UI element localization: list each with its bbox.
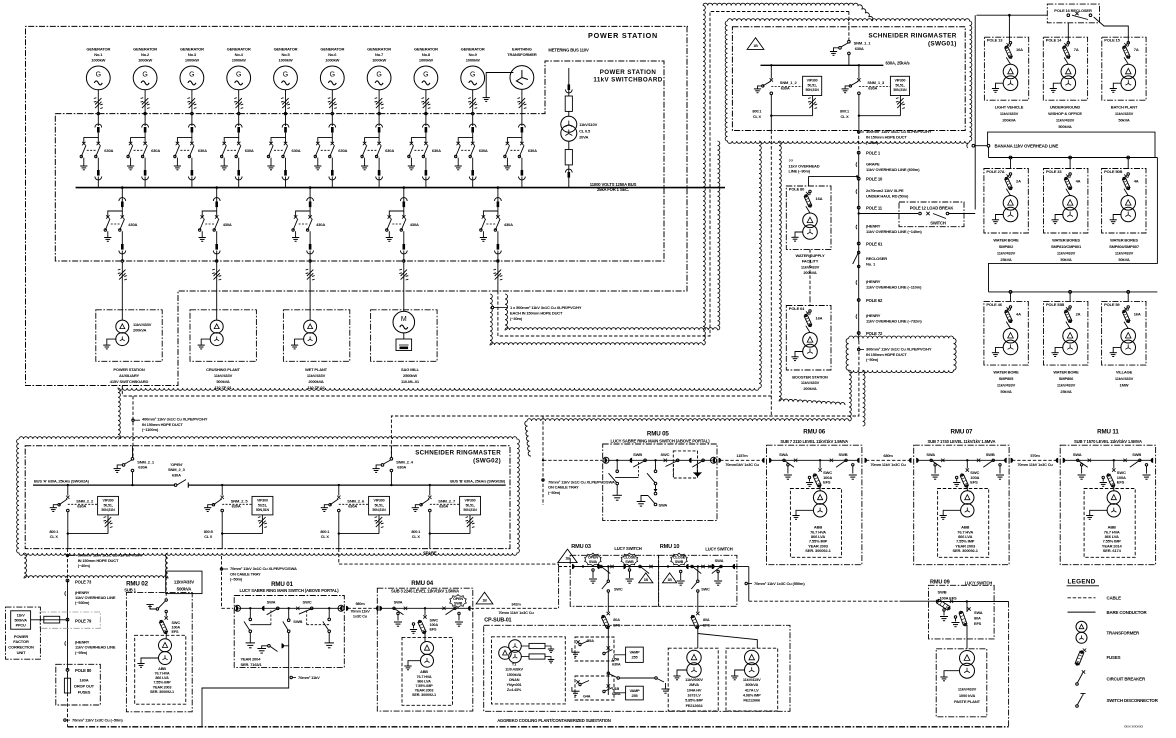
svg-text:70mm² 11kV: 70mm² 11kV [298, 675, 320, 680]
svg-text:SWB: SWB [675, 560, 684, 564]
svg-text:GENERATOR: GENERATOR [180, 47, 204, 52]
svg-text:YEAR 2003: YEAR 2003 [415, 689, 434, 693]
svg-text:630A: 630A [198, 148, 207, 153]
svg-text:No.6: No.6 [328, 52, 337, 57]
svg-text:800:1: 800:1 [49, 530, 58, 534]
cable label 400mm 1100m [132, 417, 208, 433]
wire drop to pole 14 [1067, 23, 1069, 43]
svg-text:2x70mm2 11kV XLPE: 2x70mm2 11kV XLPE [866, 188, 904, 193]
svg-text:630A: 630A [385, 148, 394, 153]
svg-text:GENERATOR: GENERATOR [274, 47, 298, 52]
RMU 11 substation [1060, 428, 1155, 564]
svg-text:SWA: SWA [779, 452, 788, 457]
svg-text:(~1100m): (~1100m) [142, 427, 159, 432]
svg-text:POLE 14: POLE 14 [1046, 38, 1062, 43]
svg-text:50,51,: 50,51, [258, 503, 267, 507]
svg-text:WATER BORES: WATER BORES [1110, 237, 1138, 242]
cloud pocket around 40m label [24, 553, 168, 578]
POLE 12 LOAD BREAK SWITCH box [858, 202, 976, 227]
svg-text:SNM_2_7: SNM_2_7 [438, 498, 456, 503]
cable RMU05 to RMU06 [719, 453, 765, 467]
RMU 01 box [234, 596, 344, 668]
wet plant transformer box [283, 291, 349, 390]
svg-text:FE212666: FE212666 [743, 698, 761, 703]
svg-text:RMU 09: RMU 09 [930, 580, 950, 586]
svg-text:SER. 300092-1: SER. 300092-1 [952, 548, 978, 553]
svg-text:No.7: No.7 [375, 52, 384, 57]
svg-text:630A: 630A [338, 148, 347, 153]
svg-text:BUS 'A' 630A, 25kA/s (SWG02A): BUS 'A' 630A, 25kA/s (SWG02A) [34, 478, 90, 483]
cloud around SWG02 [17, 437, 520, 556]
node POLE 80 drop out fuses [56, 664, 101, 705]
crushing plant transformer box [190, 291, 256, 390]
transformer 11kV/690V 2MVA [668, 648, 718, 711]
svg-text:CL X: CL X [753, 115, 762, 119]
RMU09 SWB fuse [936, 590, 1009, 627]
svg-text:IN 150mm HDPE DUCT: IN 150mm HDPE DUCT [866, 352, 907, 357]
svg-text:LINE (~90m): LINE (~90m) [789, 169, 811, 174]
svg-text:630A: 630A [432, 148, 441, 153]
svg-text:630A: 630A [781, 86, 790, 91]
svg-text:430A: 430A [316, 222, 325, 227]
cable SWG02 to pole 73 with 40m label [66, 549, 143, 581]
svg-text:430A: 430A [223, 222, 232, 227]
svg-text:(SWG02): (SWG02) [473, 458, 501, 465]
svg-text:11/0.433kV: 11/0.433kV [505, 668, 523, 672]
svg-text:SUB 7 2110 LEVEL 11kV/1k: SUB 7 2110 LEVEL 11kV/1kV 1.5MVA [780, 439, 848, 444]
svg-text:11kV/433V: 11kV/433V [1057, 382, 1076, 387]
svg-text:50kVA: 50kVA [1000, 389, 1011, 394]
svg-text:70mm² 11kV 1x3C Cu (550m): 70mm² 11kV 1x3C Cu (550m) [754, 581, 805, 586]
overhead line GRAPE [856, 162, 920, 173]
svg-text:RMU 11: RMU 11 [1097, 428, 1119, 435]
svg-text:1B: 1B [644, 578, 649, 582]
generator G6 bay with fuse and circuit breaker [314, 47, 347, 188]
svg-text:800:5: 800:5 [204, 530, 213, 534]
svg-text:G: G [330, 72, 335, 79]
svg-text:RMU 04: RMU 04 [411, 580, 434, 587]
svg-text:POLE 46: POLE 46 [986, 302, 1002, 307]
svg-text:SWA: SWA [715, 558, 724, 563]
svg-text:POWER STATION: POWER STATION [113, 367, 144, 372]
svg-text:FE212664: FE212664 [686, 703, 704, 708]
svg-text:70mm 11kV 1x3C Cu: 70mm 11kV 1x3C Cu [870, 462, 906, 467]
svg-text:630A: 630A [397, 465, 406, 470]
svg-text:11kV/433V: 11kV/433V [174, 579, 194, 584]
svg-text:(HENRY: (HENRY [866, 313, 881, 318]
svg-text:CABLE: CABLE [1107, 596, 1122, 601]
svg-text:630A: 630A [292, 148, 301, 153]
cable SWG02 area to RMU05 [542, 416, 615, 505]
svg-text:11kV/433V: 11kV/433V [1115, 111, 1134, 116]
svg-text:SER. 6174: SER. 6174 [1103, 548, 1122, 553]
svg-text:342m: 342m [511, 601, 521, 606]
svg-text:CL X: CL X [50, 535, 59, 539]
svg-text:11kV/433V: 11kV/433V [1115, 376, 1134, 381]
cloud pair on 400mm route [118, 141, 845, 439]
svg-text:CRUSHING PLANT: CRUSHING PLANT [206, 367, 240, 372]
svg-text:GENERATOR: GENERATOR [133, 47, 157, 52]
svg-text:IN 150mm HDPE DUCT: IN 150mm HDPE DUCT [78, 558, 119, 563]
legend title [1067, 579, 1100, 586]
svg-text:LUCY SABRE RING MAIN SWITCH (A: LUCY SABRE RING MAIN SWITCH (ABOVE PORTA… [240, 588, 340, 593]
svg-text:G: G [142, 72, 147, 79]
svg-text:70mm 11kV: 70mm 11kV [350, 609, 370, 613]
svg-text:70mm² 11kV 3x1C Cu XLPE/PVC/SW: 70mm² 11kV 3x1C Cu XLPE/PVC/SWA [548, 479, 615, 484]
pole 16 recloser box [1047, 4, 1099, 23]
generator G8 bay with fuse and circuit breaker [408, 47, 441, 188]
svg-text:RMU 06: RMU 06 [803, 428, 826, 435]
cable RMU06 to RMU07 [865, 453, 912, 467]
svg-text:630A: 630A [612, 663, 621, 667]
svg-text:630A: 630A [245, 148, 254, 153]
svg-text:VAMP: VAMP [629, 689, 640, 693]
cable note under haul rd [856, 188, 909, 199]
POLE 50B water bores SMP804 [1102, 169, 1146, 262]
svg-text:EFS: EFS [823, 480, 831, 485]
svg-text:SWB: SWB [293, 619, 302, 624]
svg-text:FACTOR: FACTOR [13, 639, 29, 644]
switch SNM_1_2 with VIP300 relay and CT [752, 64, 821, 130]
svg-text:WATER BORE: WATER BORE [993, 237, 1019, 242]
svg-text:No.8: No.8 [422, 52, 431, 57]
RMU10 SWC drop and 80A fuse [691, 567, 757, 649]
svg-text:POLE 10: POLE 10 [866, 177, 883, 182]
svg-text:11kV: 11kV [17, 613, 26, 617]
svg-text:TRANSFORMER: TRANSFORMER [1107, 630, 1140, 635]
svg-text:2500kW: 2500kW [403, 373, 417, 378]
wire row2 to row3 [989, 158, 1158, 292]
svg-text:(~50m): (~50m) [230, 577, 243, 582]
svg-text:866 LVA: 866 LVA [155, 676, 169, 680]
warning triangles inside RMU row [639, 573, 677, 583]
cable drop to RMU02 [165, 556, 167, 598]
svg-text:2A: 2A [1016, 179, 1021, 184]
svg-text:76.7 HVA: 76.7 HVA [417, 675, 432, 679]
svg-text:80A: 80A [613, 618, 620, 622]
power factor correction unit [6, 607, 101, 659]
RMU01 bus and switches [235, 600, 345, 625]
question overhead line 90m to pole 80 [789, 158, 859, 186]
RMU05 drop 1 with earth switch [609, 460, 639, 500]
generator G2 bay with fuse and circuit breaker [127, 47, 160, 188]
svg-text:11kV/433V: 11kV/433V [307, 373, 326, 378]
svg-text:11kV OVERHEAD LINE (~140m): 11kV OVERHEAD LINE (~140m) [866, 229, 922, 234]
svg-text:300mm² 11kV 3x1C Cu XLPE/PVC/H: 300mm² 11kV 3x1C Cu XLPE/PVC/HY [78, 553, 144, 558]
label BUS A [34, 478, 90, 483]
svg-text:1157m: 1157m [736, 453, 748, 458]
legend switch disconnector [1076, 694, 1159, 708]
svg-text:W/SHOP & OFFICE: W/SHOP & OFFICE [1048, 111, 1082, 116]
power station 11kV switchboard inner box [55, 61, 664, 261]
svg-text:50kVA: 50kVA [1118, 257, 1129, 262]
svg-text:SUB 1: SUB 1 [124, 588, 136, 593]
svg-text:POLE 50B: POLE 50B [1104, 169, 1122, 174]
svg-text:2A: 2A [1076, 311, 1081, 316]
svg-text:SUB 7 1740 LEVEL 11kV/1k: SUB 7 1740 LEVEL 11kV/1kV 1.5MVA [927, 439, 995, 444]
node POLE 1 [857, 151, 881, 156]
svg-text:No.4: No.4 [235, 52, 244, 57]
svg-text:SWA: SWA [394, 600, 403, 605]
cable SWG02 SNM_2_6 to RMU03 [339, 549, 571, 567]
SAG mill motor box [371, 291, 438, 384]
svg-text:POLE 61: POLE 61 [866, 242, 883, 247]
svg-text:415V SWITCHBOARD: 415V SWITCHBOARD [110, 379, 149, 384]
svg-text:POLE 12 LOAD BREAK: POLE 12 LOAD BREAK [910, 206, 954, 211]
svg-text:16A: 16A [816, 316, 823, 321]
svg-text:430A: 430A [128, 222, 137, 227]
svg-text:1000kW: 1000kW [466, 58, 480, 63]
RMU04 transformer [402, 637, 453, 705]
svg-text:YNyn001: YNyn001 [507, 683, 522, 687]
svg-text:RMU 05: RMU 05 [647, 431, 670, 438]
svg-text:SER. 300092-1: SER. 300092-1 [150, 690, 174, 694]
svg-text:11kV OVERHEAD LINE (~110m): 11kV OVERHEAD LINE (~110m) [866, 285, 922, 290]
svg-text:SNM_2_1: SNM_2_1 [137, 459, 155, 464]
svg-text:70mm² 11kV 1x3C Cu (~50m): 70mm² 11kV 1x3C Cu (~50m) [72, 718, 123, 723]
svg-text:(SWG01): (SWG01) [928, 41, 957, 48]
node POLE 73 [66, 579, 92, 584]
cable label 1x500mm to SWG01 [491, 305, 582, 321]
svg-text:(HENRY: (HENRY [866, 279, 881, 284]
svg-text:SER. 300092-1: SER. 300092-1 [412, 693, 436, 697]
svg-text:SWB: SWB [1132, 452, 1141, 457]
label CP-SUB-01 [484, 617, 511, 623]
svg-text:BATCH PLANT: BATCH PLANT [1111, 105, 1138, 110]
feeder breaker bay F4 below bus [386, 186, 419, 291]
overhead line HENRY 530m [65, 590, 116, 605]
svg-text:T1: T1 [512, 663, 516, 667]
svg-text:50kVA: 50kVA [1060, 257, 1071, 262]
svg-text:No.1: No.1 [94, 52, 103, 57]
svg-text:800:1: 800:1 [411, 530, 420, 534]
svg-text:50,51,: 50,51, [895, 83, 904, 87]
RMU05 drop 3 ground [693, 464, 702, 477]
switch SNM_2_7 with VIP300 relay spare [411, 484, 480, 549]
svg-text:VAMP: VAMP [629, 650, 640, 654]
svg-text:POLE 80: POLE 80 [789, 187, 805, 192]
svg-text:VIP300: VIP300 [257, 499, 268, 503]
svg-text:SUB 3 2245 LEVEL 11kV/1k: SUB 3 2245 LEVEL 11kV/1kV 1.5MVA [391, 589, 459, 594]
RMU02 transformer [135, 635, 186, 704]
svg-text:1000kW: 1000kW [232, 58, 246, 63]
cable SWG01 to pole line with label 300mm 25m [858, 129, 932, 152]
svg-text:(~25m): (~25m) [866, 140, 879, 145]
svg-text:800:1: 800:1 [320, 530, 329, 534]
svg-text:70mm 11kV 1x3C Cu: 70mm 11kV 1x3C Cu [498, 610, 534, 615]
feeder breaker bay F5 below bus [480, 186, 513, 291]
svg-text:1000 kVA: 1000 kVA [959, 693, 976, 698]
SWG02 bus A and B [33, 484, 506, 486]
cable tray label to RMU01 [220, 556, 297, 608]
svg-text:(HENRY: (HENRY [866, 224, 881, 229]
POLE 14 underground workshop transformer [1043, 37, 1087, 129]
generator G1 bay with fuse and circuit breaker [80, 47, 113, 188]
svg-text:800:1: 800:1 [840, 110, 849, 114]
svg-text:(~530m): (~530m) [75, 600, 90, 605]
svg-text:400mm² 11kV 3x1C Cu XLPE/PVC/H: 400mm² 11kV 3x1C Cu XLPE/PVC/HY [142, 417, 208, 422]
svg-text:200kVA: 200kVA [1002, 118, 1016, 123]
RMU 05 box [603, 444, 717, 521]
svg-text:11kV/433V: 11kV/433V [1000, 111, 1019, 116]
cable route SWG01 to SWG02 400mm (dashed) [122, 131, 859, 458]
RMU05 drop 2 SWA earth [637, 460, 674, 507]
warning triangle 1B in SWG01 [747, 38, 764, 50]
svg-text:POLE 79: POLE 79 [75, 619, 92, 624]
svg-text:ON CABLE TRAY: ON CABLE TRAY [230, 571, 261, 576]
svg-text:70mm 11kV 1x3C Cu: 70mm 11kV 1x3C Cu [1017, 462, 1053, 467]
svg-text:630A: 630A [138, 465, 147, 470]
svg-text:POLE 59: POLE 59 [1104, 302, 1120, 307]
svg-text:VILLAGE: VILLAGE [1116, 369, 1133, 374]
aggreko outer box [484, 625, 790, 711]
paste plant transformer [936, 649, 987, 717]
svg-text:100A: 100A [172, 625, 181, 629]
aggreko network G5A U5B VAMP relays [572, 637, 670, 700]
svg-text:1 x 500mm² 11kV 3x1C Cu XLPE/P: 1 x 500mm² 11kV 3x1C Cu XLPE/PVC/HY [510, 305, 582, 310]
svg-text:POWER: POWER [14, 634, 29, 639]
svg-text:630A: 630A [348, 504, 357, 509]
svg-text:630A: 630A [104, 148, 113, 153]
svg-text:630A: 630A [232, 504, 241, 509]
svg-text:PPCU: PPCU [16, 624, 26, 628]
node POLE 11 [857, 206, 882, 211]
svg-text:SMP806: SMP806 [1059, 376, 1074, 381]
RMU 09 box [929, 585, 995, 639]
POLE 13 light vehicle transformer [984, 37, 1028, 123]
bus label 11000 VOLTS 1250A BUS 25kA FOR 1 SEC [590, 182, 637, 192]
RMU05 inner dashed box [673, 451, 697, 478]
svg-text:SMP804/SMP807: SMP804/SMP807 [1109, 244, 1140, 249]
row3 bus wire [989, 291, 1158, 302]
svg-text:11kV OVERHEAD LINE (~732m): 11kV OVERHEAD LINE (~732m) [866, 319, 922, 324]
label SCHNEIDER RINGMASTER (SWG01) [868, 33, 956, 48]
label RMU 05 [611, 431, 711, 444]
svg-text:4A: 4A [1134, 179, 1139, 184]
svg-text:CL X: CL X [412, 535, 421, 539]
feeder breaker bay F2 below bus [199, 186, 232, 291]
svg-text:RMU 07: RMU 07 [951, 428, 974, 435]
bus tie switch SNM_2_3 OPEN [168, 462, 188, 488]
svg-text:(~50m): (~50m) [866, 357, 879, 362]
svg-text:FUSES: FUSES [78, 689, 91, 694]
svg-text:500kVA: 500kVA [14, 619, 27, 623]
POLE 64 booster station transformer [786, 227, 831, 391]
generator G7 bay with fuse and circuit breaker [361, 47, 394, 188]
svg-text:255: 255 [632, 694, 638, 698]
svg-text:(~30m): (~30m) [510, 316, 523, 321]
svg-text:11kV OVERHEAD LINE (600m): 11kV OVERHEAD LINE (600m) [866, 167, 920, 172]
cloud bubble CLOSE SWB 2 [671, 553, 687, 566]
svg-text:80A: 80A [703, 618, 710, 622]
overhead line HENRY 95m [65, 639, 116, 654]
legend cable [1068, 596, 1122, 601]
RMU 01 labels [240, 581, 340, 593]
svg-text:100A: 100A [430, 623, 439, 627]
RMU01 nameplate [241, 657, 263, 668]
svg-text:RMU 10: RMU 10 [660, 544, 680, 550]
svg-text:430A: 430A [504, 222, 513, 227]
RMU04 SWC fuse drop [410, 608, 438, 641]
svg-text:50,51,: 50,51, [808, 83, 817, 87]
POLE 46 water bore SMP805 [984, 301, 1028, 393]
pole line main conductor [858, 153, 860, 341]
svg-text:EFS: EFS [970, 480, 978, 485]
svg-text:G: G [236, 72, 241, 79]
svg-text:SWB: SWB [839, 452, 848, 457]
svg-text:YEAR 2004: YEAR 2004 [241, 657, 262, 662]
svg-text:IN 150mm HDPE DUCT: IN 150mm HDPE DUCT [142, 422, 183, 427]
svg-text:No.2: No.2 [141, 52, 150, 57]
svg-text:680m: 680m [883, 453, 893, 458]
row2 bus wire [989, 147, 1158, 169]
svg-text:50kVA: 50kVA [1118, 118, 1129, 123]
svg-text:BUS 'B' 630A, 25kA/s (SWG02B): BUS 'B' 630A, 25kA/s (SWG02B) [450, 478, 506, 483]
SWG01 bus 630A 25kA [761, 60, 911, 65]
svg-text:UNDER HAUL RD (50m): UNDER HAUL RD (50m) [866, 194, 909, 199]
svg-text:SWC: SWC [303, 600, 312, 605]
bottom area boundary [68, 602, 1009, 727]
svg-text:UNDERGROUND: UNDERGROUND [1050, 105, 1081, 110]
dashed feeder to POLE 64 [809, 249, 811, 299]
svg-text:SUB 7 1570 LEVEL 11kV/1k: SUB 7 1570 LEVEL 11kV/1kV 1.5MVA [1074, 439, 1142, 444]
recloser No 1 switch [853, 251, 888, 267]
svg-text:U1B: U1B [612, 687, 620, 691]
generator G9 bay with fuse and circuit breaker [455, 47, 488, 188]
svg-text:FUSES: FUSES [1107, 655, 1121, 660]
svg-text:YEAR 2003: YEAR 2003 [153, 685, 172, 689]
svg-text:VIP300: VIP300 [465, 499, 476, 503]
svg-text:SWA: SWA [974, 610, 983, 615]
svg-text:200kVA: 200kVA [133, 328, 147, 333]
svg-text:SNM_1_2: SNM_1_2 [780, 80, 798, 85]
row1 bus wire [976, 14, 1047, 17]
svg-text:G4A: G4A [583, 695, 591, 699]
RMU01 SWB outgoing cable 70mm [202, 633, 320, 727]
generator G5 bay with fuse and circuit breaker [267, 47, 300, 188]
POLE 80 water supply transformer [786, 186, 831, 275]
RMU 03 labels [571, 544, 642, 551]
svg-text:50N,51N: 50N,51N [893, 88, 907, 92]
svg-text:50,51,: 50,51, [374, 503, 383, 507]
POLE 15 batch plant transformer [1102, 37, 1146, 123]
svg-text:RECLOSER: RECLOSER [866, 256, 887, 261]
svg-text:POLE 72: POLE 72 [866, 331, 883, 336]
svg-text:(~40m): (~40m) [78, 563, 91, 568]
cable RMU04 to RMU03 with 342m label [471, 567, 559, 616]
svg-text:11kV/433V: 11kV/433V [214, 373, 233, 378]
watermark [1124, 725, 1143, 729]
RMU 09 labels [930, 580, 992, 586]
svg-text:630A: 630A [151, 148, 160, 153]
generator G3 bay with fuse and circuit breaker [174, 47, 207, 188]
svg-text:GENERATOR: GENERATOR [367, 47, 391, 52]
svg-text:160A: 160A [80, 678, 89, 683]
svg-text:1000kW: 1000kW [419, 58, 433, 63]
svg-text:VIP300: VIP300 [807, 79, 818, 83]
svg-text:SNM_1_1: SNM_1_1 [854, 41, 872, 46]
svg-text:630A, 25kA/s: 630A, 25kA/s [886, 60, 911, 65]
svg-text:POLE 11: POLE 11 [866, 206, 883, 211]
svg-text:POLE 27A: POLE 27A [986, 169, 1004, 174]
svg-text:ABB: ABB [420, 670, 428, 674]
CP-SUB-01 transformer cubicle [492, 631, 609, 704]
svg-text:11kV/433V: 11kV/433V [1057, 250, 1076, 255]
RMU04 bus and switches [380, 600, 471, 627]
feeder breaker bay F3 below bus [292, 186, 325, 291]
svg-text:50,51,: 50,51, [465, 503, 474, 507]
svg-text:7.55% IMP: 7.55% IMP [415, 684, 433, 688]
